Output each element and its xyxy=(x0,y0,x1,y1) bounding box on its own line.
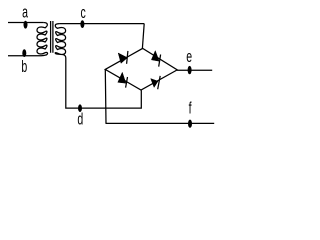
wire a input xyxy=(8,22,43,24)
svg-text:b: b xyxy=(21,57,27,76)
node d dot xyxy=(78,104,82,112)
wire f output xyxy=(106,122,215,124)
transformer T1 primary winding xyxy=(37,23,48,56)
svg-text:a: a xyxy=(22,2,28,21)
diode D1 (left vertex to top vertex) xyxy=(118,51,128,64)
transformer T1 secondary winding xyxy=(55,24,66,58)
node c dot xyxy=(80,20,84,28)
svg-text:c: c xyxy=(80,2,85,21)
node a dot xyxy=(24,21,28,29)
wire: left vertex down to f rail xyxy=(104,70,107,124)
node e dot xyxy=(188,66,192,74)
svg-text:d: d xyxy=(77,109,83,128)
wire e output xyxy=(177,69,212,71)
bridge rectifier diamond xyxy=(105,48,177,90)
diode D3 (left vertex to bottom vertex) xyxy=(118,72,128,87)
node b dot xyxy=(22,49,26,57)
wire: secondary bottom down then right to bottom vertex xyxy=(66,58,142,108)
diode D2 (top vertex to right vertex) xyxy=(151,51,160,67)
wire b input xyxy=(8,55,41,57)
svg-text:e: e xyxy=(186,46,192,65)
wire: top corner down to bridge top vertex xyxy=(142,24,144,49)
svg-text:f: f xyxy=(189,98,192,117)
diode D4 (bottom vertex to right vertex) xyxy=(151,76,161,89)
wire c: secondary top to bridge top vertex xyxy=(59,23,144,25)
node f dot xyxy=(188,120,192,128)
transformer T1 core xyxy=(51,21,53,53)
